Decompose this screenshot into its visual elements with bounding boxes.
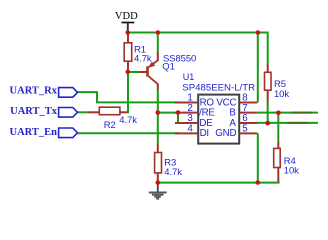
pin 5 GND xyxy=(215,123,257,138)
transistor Q1 SS8550 (PNP) xyxy=(140,52,196,90)
wire UART_Rx to pin 1 xyxy=(78,92,179,102)
junction node pin2 jog xyxy=(176,110,181,115)
junction node R4/B row xyxy=(276,111,281,116)
wire collector node to pin2 and jog to pin3 xyxy=(158,113,178,123)
wire R4 top to B row xyxy=(277,113,279,143)
svg-text:10k: 10k xyxy=(274,89,289,100)
power symbol VDD xyxy=(115,11,138,32)
pin 3 DE xyxy=(175,113,213,129)
wire A row dark segment xyxy=(287,122,308,124)
pin 7 B xyxy=(229,103,257,119)
svg-text:10k: 10k xyxy=(284,166,299,177)
svg-text:U1: U1 xyxy=(183,72,194,82)
pin 4 DI xyxy=(175,123,209,138)
wire B row dark segment xyxy=(292,112,311,114)
wire R5 bottom to A row xyxy=(267,102,269,123)
svg-text:4: 4 xyxy=(187,123,193,134)
svg-text:R2: R2 xyxy=(104,120,116,131)
resistor R1 xyxy=(124,34,152,71)
junction node VDD/R1 xyxy=(125,30,130,35)
svg-text:4.7k: 4.7k xyxy=(119,115,137,126)
svg-text:4.7k: 4.7k xyxy=(164,167,182,178)
svg-text:5: 5 xyxy=(242,123,248,134)
junction node GND drop/rail xyxy=(255,180,260,185)
svg-text:Q1: Q1 xyxy=(162,62,174,73)
op-amp/IC U1 SP485EEN-L/TR box xyxy=(182,72,255,143)
svg-text:GND: GND xyxy=(215,128,236,139)
junction node R5/A row xyxy=(265,121,270,126)
wire Q1 collector node down to R3 xyxy=(157,89,159,144)
junction node collector/R3/RE xyxy=(156,110,161,115)
pin 1 RO xyxy=(175,93,214,109)
port UART_En xyxy=(10,127,78,138)
svg-text:UART_Rx: UART_Rx xyxy=(10,86,58,97)
wire VDD top rail xyxy=(127,33,268,65)
resistor R2 xyxy=(88,107,137,131)
wire Q1 base xyxy=(128,71,141,73)
ground xyxy=(149,183,167,199)
wire UART_En to pin 4 xyxy=(78,132,179,134)
junction node emitter/rail xyxy=(156,30,161,35)
port UART_Tx xyxy=(10,106,77,117)
svg-text:DI: DI xyxy=(200,128,209,139)
wire R1 bottom junction down to R2 xyxy=(127,72,129,114)
wire A row right of IC xyxy=(257,122,318,124)
port UART_Rx xyxy=(10,86,78,98)
resistor R5 xyxy=(265,64,290,103)
pin 8 VCC xyxy=(216,93,257,109)
wire emitter drop from rail xyxy=(157,33,159,53)
resistor R4 xyxy=(274,142,299,182)
wire VCC drop to pin 8 xyxy=(257,33,259,103)
junction node VCC/rail xyxy=(256,30,261,35)
svg-text:UART_Tx: UART_Tx xyxy=(10,106,58,117)
pin 2 /RE xyxy=(175,103,215,119)
pin 6 A xyxy=(229,113,257,129)
wire GND pin 5 drop xyxy=(257,133,259,182)
wire B row right of IC xyxy=(257,112,318,114)
resistor R3 xyxy=(155,144,183,182)
svg-text:VDD: VDD xyxy=(115,11,138,22)
junction node R1/base/R2 xyxy=(126,70,131,75)
junction node R3/ground rail xyxy=(156,180,161,185)
svg-text:UART_En: UART_En xyxy=(10,127,58,138)
wire UART_Tx to R2 xyxy=(78,111,89,113)
wire ground rail bottom xyxy=(158,181,279,183)
svg-text:4.7k: 4.7k xyxy=(134,53,152,64)
